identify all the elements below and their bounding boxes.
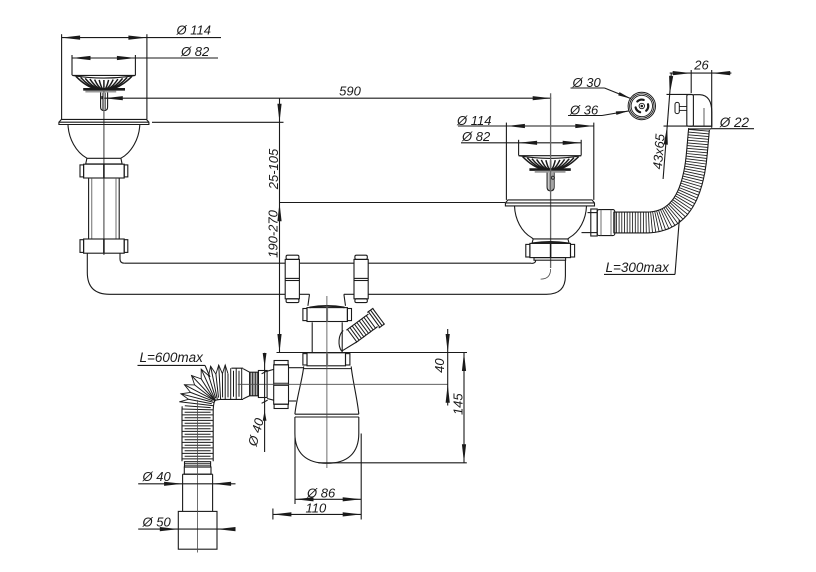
- vertical pipe to siphon: [311, 322, 313, 352]
- svg-text:Ø 114: Ø 114: [176, 23, 211, 38]
- siphon cup joint band: [295, 413, 359, 415]
- svg-text:25-105: 25-105: [266, 148, 281, 190]
- angled dishwasher inlet branch end collar: [368, 312, 379, 328]
- pipe union nut left of tee: [285, 259, 299, 298]
- svg-text:Ø 50: Ø 50: [142, 514, 172, 529]
- svg-text:L=600max: L=600max: [140, 350, 205, 365]
- extension line at siphon nut level: [277, 352, 468, 354]
- right strainer neck ring: [532, 239, 569, 243]
- dimension Ø114 (right strainer): [458, 125, 594, 127]
- left sink flange: [59, 119, 149, 124]
- left strainer basket rim: [72, 74, 135, 76]
- extension line at sink flange level: [152, 121, 284, 123]
- svg-text:Ø 82: Ø 82: [180, 44, 210, 59]
- left strainer neck ring: [86, 158, 122, 164]
- dimension 590: [104, 97, 551, 99]
- svg-text:145: 145: [450, 393, 465, 415]
- pipe union nut right of tee: [354, 259, 368, 298]
- left strainer stem: [101, 93, 108, 111]
- angled dishwasher inlet branch socket: [339, 331, 343, 352]
- tee neck: [308, 294, 310, 306]
- dimension Ø82 (right strainer): [461, 142, 581, 144]
- left compression nut (upper): [84, 164, 125, 178]
- dimension 26: [670, 72, 732, 74]
- dimension Ø40 (hose diameter, rotated): [264, 353, 266, 452]
- right strainer bowl: [515, 206, 534, 239]
- overflow rosette (front view): [628, 92, 655, 119]
- right sink flange: [505, 200, 594, 206]
- horizontal waste pipe (bottom edge): [110, 293, 286, 295]
- right strainer outlet collar: [534, 258, 566, 261]
- vertical dimension line (25-105 / 190-270): [279, 98, 281, 352]
- outlet taper to nut: [267, 369, 274, 371]
- left strainer basket rib fan: [76, 76, 97, 89]
- right strainer basket rim: [519, 155, 582, 157]
- svg-text:40: 40: [432, 358, 447, 373]
- outlet sleeve Ø50: [178, 511, 217, 549]
- dimension 40: [447, 329, 449, 406]
- extension lines / body box of left strainer: [61, 34, 63, 119]
- hose end collar: [184, 467, 211, 474]
- extension line at right flange level: [280, 202, 506, 204]
- siphon centerline vertical: [326, 296, 328, 468]
- right elbow under right strainer: [531, 260, 536, 263]
- dimension Ø50 (outlet sleeve): [138, 528, 235, 530]
- svg-text:L=300max: L=300max: [606, 260, 671, 275]
- right strainer base bar: [529, 168, 570, 171]
- dimension Ø40 (outlet pipe): [138, 483, 235, 485]
- dimension 145: [463, 353, 465, 463]
- left compression nut (lower): [84, 239, 125, 253]
- svg-text:Ø 86: Ø 86: [306, 485, 336, 500]
- siphon cup: [295, 417, 359, 463]
- svg-text:26: 26: [693, 57, 709, 72]
- svg-text:43x65: 43x65: [650, 133, 668, 170]
- siphon inlet nut: [307, 353, 346, 366]
- outlet pipe centerline: [197, 400, 199, 553]
- overflow screw: [679, 106, 687, 108]
- outlet axis centerline: [238, 383, 448, 385]
- svg-text:Ø 40: Ø 40: [142, 469, 172, 484]
- svg-text:Ø 82: Ø 82: [461, 129, 491, 144]
- overflow cover plate: [687, 95, 694, 127]
- outlet plain cylinder: [258, 371, 267, 398]
- left strainer bowl: [68, 125, 87, 159]
- outlet ribbed sleeve: [250, 372, 259, 396]
- outlet pipe Ø40: [182, 474, 184, 511]
- overflow corrugated hose L=300max: [689, 129, 710, 131]
- svg-text:110: 110: [306, 500, 327, 515]
- svg-text:Ø 22: Ø 22: [719, 115, 750, 130]
- dimension Ø114 (left strainer): [62, 37, 221, 39]
- dimension Ø82 (left strainer): [72, 57, 218, 59]
- dimension Ø86: [294, 438, 296, 505]
- left tailpipe: [88, 178, 90, 239]
- siphon outlet nut: [274, 361, 288, 365]
- dimension 110: [272, 509, 274, 520]
- left strainer centerline: [103, 91, 105, 255]
- right strainer stem: [547, 173, 554, 191]
- hose end ring: [185, 462, 211, 467]
- svg-text:Ø 40: Ø 40: [245, 416, 267, 449]
- left elbow to horizontal pipe: [87, 253, 109, 294]
- dimension 43x65 (slanted): [663, 74, 671, 180]
- angled dishwasher inlet branch ribbed stem: [348, 329, 357, 342]
- dimension Ø22 leader: [711, 128, 755, 130]
- tee union nut: [307, 308, 347, 322]
- right strainer side outlet to overflow hose: [588, 212, 598, 214]
- left strainer base bar: [83, 88, 125, 91]
- siphon body top edge: [304, 368, 351, 370]
- siphon outlet stub: [289, 367, 304, 369]
- svg-text:190-270: 190-270: [265, 209, 280, 257]
- right strainer centerline: [550, 93, 552, 268]
- right strainer nut: [530, 243, 571, 257]
- horizontal waste pipe (top edge): [124, 262, 285, 264]
- overflow elbow body: [693, 95, 711, 127]
- svg-text:590: 590: [339, 83, 361, 98]
- right strainer basket rib fan: [523, 157, 544, 170]
- siphon body shoulder: [295, 366, 304, 414]
- extension line at cup bottom: [318, 462, 466, 464]
- outlet corrugated hose L=600max: [241, 368, 243, 399]
- outlet cone to hose: [243, 369, 250, 373]
- svg-text:Ø 114: Ø 114: [456, 113, 491, 128]
